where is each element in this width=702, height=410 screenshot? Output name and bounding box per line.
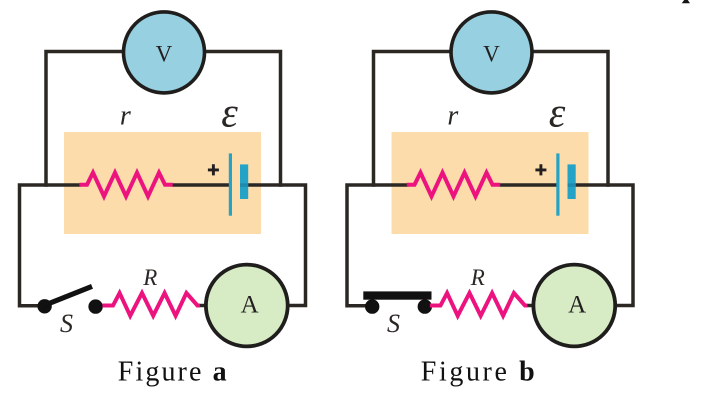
- svg-text:A: A: [241, 292, 259, 319]
- wire: voltmeter loop right (fig b): [532, 52, 608, 187]
- wire: resistor r to battery positive plate (fig a): [172, 183, 230, 187]
- svg-text:R: R: [142, 265, 157, 290]
- svg-text:r: r: [120, 101, 131, 132]
- internal battery box (fig b): [392, 132, 589, 234]
- switch S open: contact dot (fig a): [88, 299, 102, 313]
- battery polarity plus sign (fig b): [535, 164, 546, 175]
- stray cropped glyph top-right: [682, 0, 690, 3]
- voltmeter V circle (fig a): [124, 12, 205, 93]
- battery plate short negative (fig a): [240, 164, 248, 199]
- svg-text:A: A: [568, 292, 586, 319]
- svg-text:V: V: [156, 42, 173, 67]
- switch S closed: contact dot (fig b): [418, 299, 432, 313]
- battery plate short negative (fig b): [568, 164, 576, 199]
- svg-text:S: S: [387, 309, 400, 338]
- battery EMF plate long positive (fig a): [229, 153, 232, 215]
- switch S closed: pivot dot (fig b): [365, 299, 379, 313]
- svg-text:ε: ε: [549, 91, 566, 137]
- svg-text:S: S: [60, 309, 73, 338]
- svg-text:r: r: [447, 101, 458, 132]
- resistor r (fig b): [407, 173, 500, 197]
- svg-text:Figure b: Figure b: [421, 357, 538, 388]
- svg-text:R: R: [470, 265, 485, 290]
- voltmeter V circle (fig b): [451, 12, 532, 93]
- wire: battery negative out + outer right side to ammeter (fig b): [571, 185, 634, 306]
- wire: battery negative out + outer right side to ammeter (fig a): [243, 185, 306, 306]
- battery EMF plate long positive (fig b): [556, 153, 559, 215]
- ammeter A circle (fig a): [206, 265, 288, 347]
- switch S closed: lever bar (fig b): [363, 291, 431, 299]
- svg-text:ε: ε: [221, 91, 238, 137]
- wire: voltmeter loop right (fig a): [205, 52, 281, 187]
- wire: voltmeter loop left (fig a): [46, 52, 124, 187]
- switch S open: pivot dot (fig a): [37, 299, 51, 313]
- wire: voltmeter loop left (fig b): [374, 52, 452, 187]
- resistor r (fig a): [79, 173, 172, 197]
- internal battery box (fig a): [64, 132, 261, 234]
- resistor R (fig b): [430, 293, 528, 316]
- switch S open: lever arm (fig a): [45, 286, 92, 305]
- battery polarity plus sign (fig a): [208, 164, 219, 175]
- svg-text:Figure a: Figure a: [118, 357, 229, 388]
- svg-text:V: V: [483, 42, 500, 67]
- wire: resistor R to ammeter (fig b): [527, 304, 534, 308]
- wire: battery branch left + outer left side (fig a): [20, 185, 82, 306]
- ammeter A circle (fig b): [533, 265, 615, 347]
- wire: battery branch left + outer left side (fig b): [347, 185, 409, 306]
- resistor R (fig a): [102, 293, 199, 316]
- wire: resistor R to ammeter (fig a): [199, 304, 206, 308]
- wire: resistor r to battery positive plate (fig b): [500, 183, 558, 187]
